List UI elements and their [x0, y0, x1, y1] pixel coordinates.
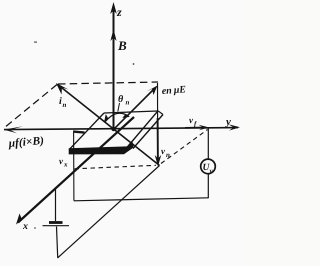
v_n arrowhead (down)	[155, 155, 161, 167]
i_n arrowhead	[56, 83, 69, 95]
z-axis arrowhead	[110, 2, 117, 14]
svg-text:x: x	[22, 221, 28, 232]
i_n line from v_n corner through origin to apex	[58, 85, 160, 166]
svg-text:en μE: en μE	[161, 84, 186, 97]
plate top face left edge	[69, 113, 104, 150]
big rectangle left edge	[73, 131, 75, 201]
battery lead (vertical from x-axis)	[55, 189, 57, 221]
voltmeter circle U_H	[201, 159, 216, 174]
v_f small arrowhead on axis	[199, 125, 210, 131]
svg-text:n: n	[125, 99, 129, 107]
hidden dashed wire from v_x side to v_n corner	[75, 165, 157, 169]
svg-text:y: y	[224, 116, 231, 128]
plate top face back edge	[104, 111, 158, 113]
y-axis arrowhead	[229, 124, 241, 130]
plate right end face lower edge	[133, 115, 163, 149]
svg-text:z: z	[116, 5, 122, 19]
x-axis line (through lower-left, also carries current wire)	[18, 117, 134, 223]
stray flecks from scan	[34, 42, 37, 43]
theta_H arc (double arrow)	[106, 113, 129, 121]
plate front face (thick black bar)	[69, 142, 134, 155]
theta leader stroke	[118, 103, 120, 112]
svg-text:θ: θ	[118, 94, 124, 105]
vertical projection line at plate right end	[157, 83, 159, 118]
wire from bottom vertex up to v_n corner	[58, 166, 160, 259]
battery lower lead down to vertex	[57, 227, 58, 258]
plate right end face upper edge	[128, 111, 159, 147]
paper background	[0, 0, 243, 266]
origin junction blob	[111, 127, 115, 131]
horizontal axis (y to the right, muF(ixB) to the left)	[4, 128, 238, 130]
en muE arrow from origin up-right	[114, 89, 155, 130]
big rectangle bottom edge	[74, 198, 209, 201]
dashed diagonal from v_n corner to v_f point	[161, 130, 208, 164]
z-axis	[113, 6, 115, 130]
dashed edge from apex down-left to axis	[4, 85, 57, 129]
big rectangle right edge (upper part to circle)	[207, 128, 209, 159]
svg-text:B: B	[117, 38, 127, 53]
svg-text:x: x	[63, 160, 68, 168]
vector B arrowhead on z-axis	[110, 29, 116, 41]
plate right end cap	[158, 111, 163, 115]
battery short thick plate	[49, 221, 63, 224]
dashed edge from apex to the right	[58, 82, 158, 84]
big rectangle right edge (circle to corner)	[207, 174, 209, 199]
svg-text:n: n	[62, 101, 66, 109]
x-axis arrowhead	[16, 214, 28, 225]
contact tick on axis at rectangle left edge	[74, 132, 85, 133]
battery long thin plate	[43, 225, 70, 227]
left arrowhead muF(ixB)	[4, 126, 24, 133]
